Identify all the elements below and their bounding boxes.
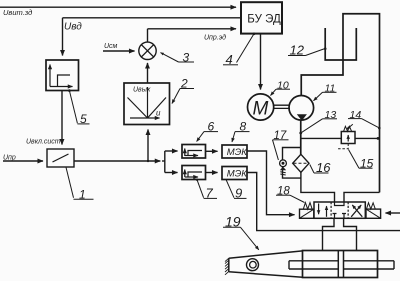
svg-text:14: 14 xyxy=(350,109,362,121)
svg-text:5: 5 xyxy=(80,112,87,126)
svg-text:Uпр: Uпр xyxy=(3,155,16,162)
svg-text:15: 15 xyxy=(360,156,374,170)
svg-text:4: 4 xyxy=(226,52,233,67)
svg-text:18: 18 xyxy=(277,185,290,197)
svg-text:16: 16 xyxy=(316,160,331,175)
svg-text:11: 11 xyxy=(325,83,336,95)
svg-text:Uвд: Uвд xyxy=(64,22,82,33)
svg-text:8: 8 xyxy=(240,120,247,134)
svg-text:13: 13 xyxy=(325,109,337,121)
svg-text:Uпр.эд: Uпр.эд xyxy=(204,34,226,42)
svg-text:17: 17 xyxy=(274,130,287,142)
svg-text:3: 3 xyxy=(183,51,190,65)
svg-text:Uвых: Uвых xyxy=(133,87,151,94)
svg-text:МЭК: МЭК xyxy=(227,168,249,179)
svg-text:u: u xyxy=(156,109,161,118)
svg-text:Uвит.зд: Uвит.зд xyxy=(3,8,32,17)
svg-text:12: 12 xyxy=(290,43,305,58)
svg-text:1: 1 xyxy=(79,188,86,202)
svg-text:БУ ЭД: БУ ЭД xyxy=(247,13,281,25)
svg-text:6: 6 xyxy=(208,120,215,134)
svg-text:9: 9 xyxy=(235,186,242,201)
svg-text:МЭК: МЭК xyxy=(227,147,249,158)
svg-text:2: 2 xyxy=(180,77,188,91)
svg-text:19: 19 xyxy=(225,214,241,230)
svg-text:7: 7 xyxy=(206,186,214,201)
svg-text:Uвкл.сист: Uвкл.сист xyxy=(26,139,61,146)
svg-text:М: М xyxy=(253,99,269,120)
svg-text:Uсм: Uсм xyxy=(104,43,118,50)
svg-text:10: 10 xyxy=(277,80,289,92)
